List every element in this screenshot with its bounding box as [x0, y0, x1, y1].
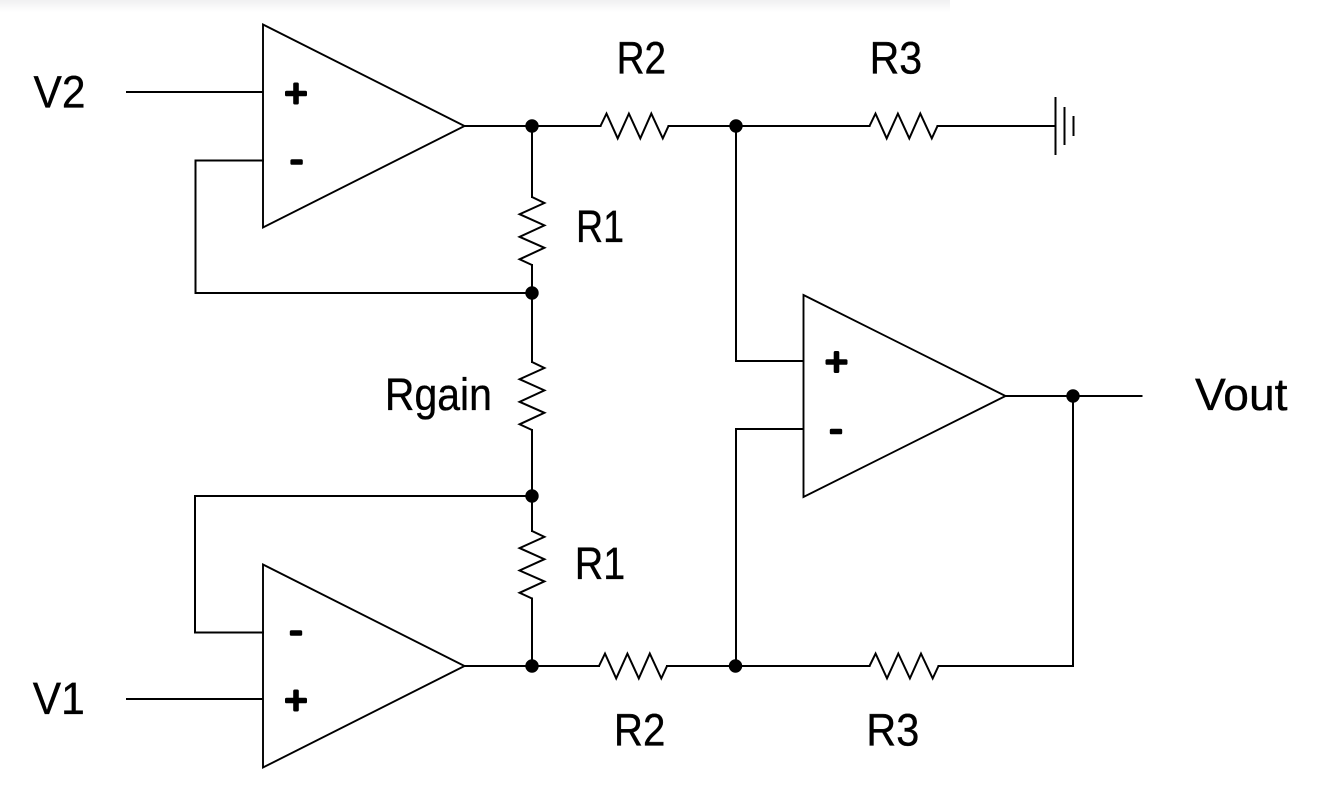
wire Rgain to node D [531, 430, 533, 496]
svg-text:R1: R1 [575, 538, 626, 589]
node A (U1 out) [525, 119, 538, 132]
ground [1056, 98, 1074, 154]
wire R1 top to node C [531, 265, 533, 293]
svg-text:Rgain: Rgain [385, 369, 492, 420]
node F (R2b/R3b/U3 minus) [729, 659, 742, 672]
wire node B to U3 plus [736, 126, 804, 361]
wire node A to R1 top [531, 126, 533, 197]
svg-text:V1: V1 [33, 673, 85, 724]
resistor R3 top [870, 114, 938, 139]
svg-text:R2: R2 [617, 33, 667, 84]
op-amp U2 [263, 565, 465, 768]
resistor R1 bottom [520, 531, 545, 599]
node E (U2 out) [525, 659, 538, 672]
svg-text:R1: R1 [576, 201, 624, 252]
wire V2 input [127, 91, 263, 93]
op-amp U1 [263, 25, 465, 228]
resistor R3 bottom [870, 654, 939, 679]
wire node D to R1 bottom [531, 496, 533, 531]
wire node C to Rgain [531, 293, 533, 362]
resistor Rgain [520, 362, 545, 430]
wire R3 to ground [938, 125, 1056, 127]
resistor R2 top [601, 114, 669, 139]
svg-text:R2: R2 [614, 705, 666, 756]
resistor R2 bottom [599, 654, 667, 679]
wire U1 output [465, 125, 601, 127]
wire R1 bottom to node E [531, 599, 533, 667]
svg-text:Vout: Vout [1195, 369, 1288, 420]
node Vout [1066, 389, 1079, 402]
node C (R1t/feedback) [525, 286, 538, 299]
op-amp U3 [804, 295, 1006, 497]
node D (Rgain/U2 feedback) [525, 489, 538, 502]
wire R2 bottom to node F [667, 665, 870, 667]
wire R3 bottom to corner [939, 396, 1074, 666]
wire U2 feedback [195, 496, 532, 633]
wire V1 input [127, 698, 263, 700]
wire U1 feedback [196, 161, 533, 294]
wire node F to U3 minus [736, 429, 804, 666]
wire U3 output [1006, 395, 1142, 397]
svg-text:R3: R3 [866, 705, 919, 756]
wire U2 output [465, 665, 600, 667]
wire R2 to node B [669, 125, 870, 127]
svg-text:V2: V2 [34, 67, 86, 118]
svg-text:R3: R3 [870, 33, 923, 84]
node B (R2t/R3t) [729, 119, 742, 132]
resistor R1 top [520, 197, 545, 265]
